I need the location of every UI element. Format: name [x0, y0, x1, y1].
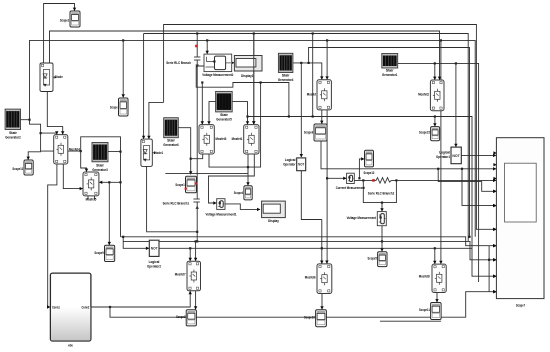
scope Scope11: [419, 303, 441, 320]
wire bus Bb: [123, 240, 496, 261]
wire bus Bd: [110, 290, 496, 317]
wire Scope1 feed: [191, 154, 203, 159]
wire Mosfet1 d feed (over Display1): [252, 34, 255, 125]
wire bus B3: [144, 32, 469, 241]
wire bus Ba: [121, 236, 497, 248]
capacitor Serie RLC Branch1: [163, 199, 200, 209]
voltage measurement Voltage Measurement: [347, 212, 387, 226]
svg-text:Serie RLC Branch2: Serie RLC Branch2: [368, 191, 395, 196]
svg-text:Display1: Display1: [241, 73, 254, 78]
wire StairGenerator5 out left: [207, 102, 215, 125]
svg-text:Scope10: Scope10: [304, 315, 315, 320]
svg-text:NOT: NOT: [151, 247, 159, 251]
wire Mosfet8 g feed: [433, 248, 436, 264]
wire Mosfet2 g feed: [433, 63, 436, 80]
svg-text:Mosfet4: Mosfet4: [69, 147, 80, 152]
wire StairGenerator6 out: [178, 128, 192, 175]
svg-text:Mosfet6: Mosfet6: [305, 275, 316, 280]
wire scope7 in5 route: [462, 169, 496, 208]
wire bus from StairGenerator4: [309, 48, 470, 237]
wire Display feed: [225, 204, 260, 211]
wire LogicalOperator1 feed: [454, 63, 457, 147]
wire StairGenerator3 out: [41, 137, 121, 152]
svg-text:Voltage Measurement2: Voltage Measurement2: [202, 72, 234, 77]
node red marker on Scope1: [185, 183, 198, 190]
stair generator Stair Generator5: [216, 91, 233, 121]
svg-text:Generator6: Generator6: [163, 142, 179, 147]
svg-text:Mosfet8: Mosfet8: [419, 274, 430, 279]
wire VoltageMeasurement1 feed: [209, 152, 255, 205]
wire Scope9 feed: [108, 182, 111, 245]
wire VoltageMeasurement2 feed: [206, 40, 209, 54]
wire bus y116: [248, 115, 497, 278]
scope Scope8: [176, 310, 196, 326]
svg-text:Display: Display: [268, 218, 279, 223]
transistor Mosfet1: [232, 125, 259, 154]
wire RLC column upper: [196, 34, 198, 58]
wire Scope6 feed: [320, 110, 323, 124]
wire VoltageMeasurement2 minus net: [196, 66, 290, 118]
wire Mosfet3 g feed: [201, 83, 204, 125]
wire LogicalOperator2 feed: [122, 236, 149, 250]
svg-text:Serie RLC Branch: Serie RLC Branch: [166, 60, 191, 65]
svg-text:Generator5: Generator5: [216, 117, 232, 122]
svg-text:Generator2: Generator2: [5, 135, 21, 140]
wire Mosfet d feed: [325, 40, 328, 79]
scope Scope12: [12, 160, 33, 175]
wire braid vertical: [488, 246, 490, 292]
scope Scope7 (multi-input): [493, 138, 544, 308]
wire CurrentMeasurement feed: [327, 110, 347, 180]
wire Mosfet4 g feed: [41, 131, 59, 134]
wire Mosfet5 right feed: [99, 181, 121, 184]
wire Mosfet7 g feed: [189, 248, 192, 261]
wire machine Conn2 out: [91, 291, 192, 308]
wire LogicalOperator feed: [300, 63, 303, 157]
wire resistor net: [354, 179, 496, 182]
wire scope feed: [122, 40, 125, 97]
wire bus diode-out to Mosfet2 d: [50, 31, 442, 80]
stair generator Stair Generator3: [92, 143, 108, 173]
wire StairGenerator4 out: [293, 62, 324, 80]
display Display1: [234, 56, 262, 79]
wire bus from node A: [30, 39, 476, 237]
transistor Mosfet8: [419, 264, 446, 292]
svg-text:Generator4: Generator4: [278, 77, 294, 82]
svg-text:Voltage Measurement1: Voltage Measurement1: [206, 211, 238, 216]
svg-text:Scope1: Scope1: [175, 182, 185, 187]
svg-text:Diode1: Diode1: [154, 150, 164, 155]
wire Display1 feed: [231, 61, 234, 64]
wire LogicalOperator out down: [301, 171, 322, 220]
wire Scope15 feed: [433, 117, 436, 127]
svg-text:Mosfet1: Mosfet1: [232, 136, 243, 141]
scope Scope2: [60, 11, 80, 27]
wire StairGenerator2 out: [21, 119, 42, 160]
wire Scope4 feed: [209, 154, 250, 186]
subsystem machine block: [50, 273, 91, 347]
wire Scope8 feed: [194, 291, 197, 310]
wire bus y168.8: [321, 141, 496, 171]
scope Scope6: [304, 124, 327, 141]
transistor Mosfet4: [54, 135, 81, 164]
transistor Mosfet5: [83, 172, 99, 202]
svg-text:Scope8: Scope8: [176, 314, 186, 319]
scope Scope9: [94, 245, 114, 261]
wire Mosfet5 g feed: [81, 151, 89, 172]
wire stub y321: [380, 320, 441, 322]
wire dropper x312: [312, 32, 314, 117]
wire bus Bc: [159, 247, 472, 249]
wire Mosfet6 d feed: [325, 177, 328, 264]
stair generator Stair Generator4: [278, 53, 294, 82]
scope Scope13: [364, 150, 375, 175]
svg-text:Scope5: Scope5: [368, 256, 378, 261]
svg-text:Serie RLC Branch1: Serie RLC Branch1: [163, 201, 190, 206]
svg-text:Scope13: Scope13: [364, 170, 375, 175]
logic gate Logical Operator1: [436, 147, 461, 164]
svg-text:Generator1: Generator1: [382, 72, 398, 77]
wire net at node 260.6: [247, 81, 262, 168]
wire Diode out: [47, 92, 64, 135]
resistor Serie RLC Branch2: [368, 178, 395, 196]
svg-text:Mosfet: Mosfet: [307, 92, 317, 97]
wire VoltageMeasurement loop: [363, 180, 396, 211]
wire node B vertical: [119, 151, 121, 237]
scope Scope5: [368, 252, 388, 267]
svg-text:wGe: wGe: [68, 343, 74, 348]
wire Mosfet7 d feed: [194, 241, 197, 261]
wire Mosfet6 g feed: [320, 220, 323, 264]
svg-text:Operator1: Operator1: [436, 154, 451, 159]
wire StairGenerator1 out: [398, 62, 479, 282]
svg-text:Scope12: Scope12: [12, 166, 23, 171]
transistor Mosfet7: [175, 261, 201, 291]
wire Scope5 feed: [380, 226, 383, 252]
svg-text:Diode: Diode: [55, 74, 63, 79]
svg-text:Generator3: Generator3: [92, 167, 108, 172]
svg-text:Mosfet5: Mosfet5: [86, 197, 97, 202]
wire mid net a: [165, 152, 248, 174]
svg-text:Operator: Operator: [283, 162, 296, 167]
svg-text:Scope4: Scope4: [234, 190, 244, 195]
svg-text:Scope7: Scope7: [516, 303, 525, 308]
wire Scope10 feed: [320, 294, 323, 310]
svg-text:NOT: NOT: [298, 163, 305, 167]
wire bus B0: [164, 25, 497, 232]
svg-text:Conn2: Conn2: [82, 306, 90, 310]
wire RLC column lower: [196, 202, 198, 243]
svg-text:Scope15: Scope15: [419, 130, 430, 135]
scope Scope10: [304, 310, 326, 327]
capacitor Serie RLC Branch: [166, 45, 200, 68]
wire Mosfet8 d feed: [439, 40, 442, 264]
svg-text:Conn1: Conn1: [52, 306, 60, 310]
display Display: [262, 201, 286, 223]
svg-text:Mosfet3: Mosfet3: [216, 136, 227, 141]
stair generator Stair Generator2: [5, 109, 21, 140]
logic gate Logical Operator: [283, 157, 306, 171]
wire Diode1 in1: [142, 34, 145, 140]
wire scope7 in4 route: [438, 169, 496, 193]
current measurement Current Measurement: [336, 173, 366, 190]
svg-text:Scope11: Scope11: [419, 307, 430, 312]
svg-text:Scope6: Scope6: [304, 130, 314, 135]
scope Scope: [110, 98, 128, 116]
wire scope2 feed: [44, 4, 77, 64]
svg-text:Mosfet2: Mosfet2: [418, 92, 429, 97]
voltage measurement Voltage Measurement2: [202, 54, 234, 77]
wire Diode1 out: [147, 166, 198, 231]
wire Mosfet5 left feed: [63, 164, 83, 190]
svg-text:Voltage Measurement: Voltage Measurement: [347, 215, 377, 220]
transistor Mosfet: [307, 80, 332, 110]
logic gate Logical Operator2: [147, 240, 162, 268]
wire Mosfet1 d feed: [252, 34, 255, 125]
scope Scope15: [419, 127, 440, 141]
transistor Mosfet2: [418, 80, 444, 111]
svg-text:Current Measurement: Current Measurement: [336, 185, 366, 190]
svg-text:Scope2: Scope2: [60, 18, 70, 23]
wire LogicalOperator1 out: [461, 154, 496, 157]
diode Diode1: [141, 139, 164, 166]
svg-text:Scope9: Scope9: [94, 250, 104, 255]
diode Diode: [40, 63, 63, 92]
svg-text:Scope: Scope: [110, 105, 118, 110]
scope Scope4: [234, 186, 252, 200]
svg-text:Operator2: Operator2: [147, 263, 162, 268]
wire Scope13 feed: [358, 157, 364, 179]
svg-text:NOT: NOT: [452, 154, 460, 158]
wire Mosfet5 bottom stubs: [88, 196, 95, 200]
stair generator Stair Generator1: [382, 54, 398, 78]
wire Diode1 in2: [147, 102, 163, 139]
transistor Mosfet3: [199, 125, 227, 154]
scope Scope1: [175, 176, 196, 193]
svg-text:Mosfet7: Mosfet7: [175, 272, 186, 277]
stair generator Stair Generator6: [163, 118, 179, 147]
wire RLC column mid: [196, 60, 198, 199]
wire StairGenerator5 out right: [232, 102, 249, 125]
voltage measurement Voltage Measurement1: [206, 199, 238, 217]
transistor Mosfet6: [305, 264, 332, 294]
wire machine Conn1 feed: [47, 164, 57, 309]
wire Scope11 feed: [435, 293, 438, 303]
